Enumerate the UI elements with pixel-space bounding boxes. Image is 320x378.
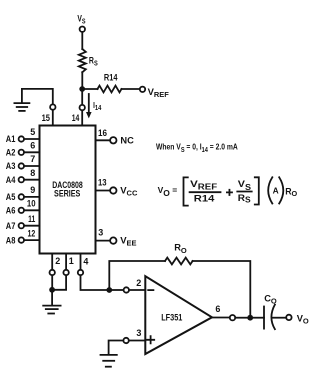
svg-text:LF351: LF351	[161, 313, 182, 323]
svg-text:A: A	[273, 186, 279, 196]
svg-text:11: 11	[28, 214, 35, 224]
svg-text:6: 6	[215, 304, 220, 314]
svg-text:13: 13	[98, 178, 107, 188]
svg-text:10: 10	[27, 199, 36, 209]
svg-text:9: 9	[30, 185, 35, 195]
svg-text:A7: A7	[6, 221, 16, 231]
svg-text:16: 16	[98, 128, 107, 138]
svg-text:4: 4	[83, 257, 88, 267]
svg-text:8: 8	[30, 168, 35, 178]
svg-text:6: 6	[30, 141, 35, 151]
svg-text:SERIES: SERIES	[54, 188, 80, 198]
svg-text:15: 15	[42, 113, 50, 123]
svg-text:14: 14	[72, 113, 80, 123]
svg-text:A2: A2	[6, 148, 16, 158]
svg-text:2: 2	[136, 278, 141, 288]
svg-text:A1: A1	[6, 134, 16, 144]
svg-text:R14: R14	[104, 72, 118, 82]
svg-text:12: 12	[28, 228, 36, 238]
svg-text:7: 7	[30, 154, 35, 164]
svg-text:NC: NC	[120, 135, 134, 145]
svg-text:RO: RO	[285, 187, 297, 199]
svg-text:5: 5	[30, 127, 35, 137]
svg-text:A4: A4	[6, 175, 16, 185]
svg-text:3: 3	[98, 228, 103, 238]
svg-text:3: 3	[136, 328, 141, 338]
svg-text:I14: I14	[93, 101, 101, 112]
svg-text:A8: A8	[6, 235, 16, 245]
svg-text:R14: R14	[194, 193, 215, 204]
svg-text:RS: RS	[238, 193, 252, 205]
svg-text:1: 1	[69, 256, 74, 266]
svg-text:A3: A3	[6, 161, 16, 171]
svg-text:2: 2	[55, 256, 60, 266]
svg-text:A5: A5	[6, 192, 16, 202]
svg-text:A6: A6	[6, 206, 16, 216]
